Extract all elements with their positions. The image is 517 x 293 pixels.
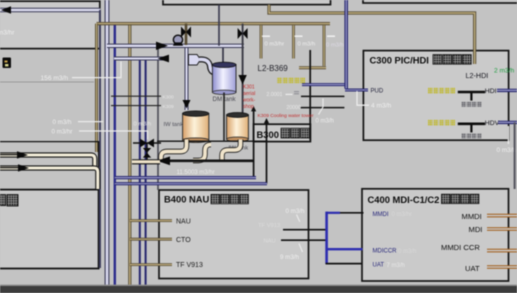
pipe blue MDICCR into C400 bbox=[327, 248, 363, 250]
label MDICCR left + value bbox=[373, 248, 417, 254]
label HDI + pipe bbox=[485, 88, 517, 95]
tank DM bbox=[212, 62, 236, 94]
svg-text:0 m3/h: 0 m3/h bbox=[298, 42, 316, 48]
wire UAT into C400 bbox=[326, 263, 363, 265]
label MMDI left + value bbox=[373, 212, 412, 218]
arrow left on stub y58.5 bbox=[158, 55, 170, 63]
label C300 title bbox=[370, 55, 472, 66]
tank IW1 bbox=[183, 111, 209, 143]
arrow down tank2 inlet bbox=[238, 75, 246, 85]
svg-text:MMDI CCR: MMDI CCR bbox=[441, 243, 480, 252]
pipe cream pump elbow 1 bbox=[161, 140, 187, 161]
tick white 3 bbox=[327, 35, 335, 37]
svg-text:9 m3/h: 9 m3/h bbox=[280, 254, 299, 261]
svg-text:0 m3/h: 0 m3/h bbox=[497, 147, 517, 154]
svg-text:B400 NAU: B400 NAU bbox=[164, 194, 210, 205]
pipe S-bend into DM tank bbox=[199, 59, 220, 73]
svg-text:TF V913: TF V913 bbox=[176, 262, 203, 269]
pipe outlet header y160.8 bbox=[157, 160, 253, 163]
label 0 m3/h mid bbox=[134, 122, 152, 128]
label UAT right + pipe bbox=[465, 264, 517, 273]
tick white 2 bbox=[295, 35, 303, 37]
svg-text:0 m3/h: 0 m3/h bbox=[134, 122, 152, 128]
label white 0 m3/h B400 bbox=[286, 208, 305, 222]
svg-text:C300 PIC/HDI: C300 PIC/HDI bbox=[370, 55, 429, 66]
pump P top bbox=[173, 35, 183, 46]
svg-text:B300: B300 bbox=[257, 129, 279, 140]
wire riser B to B300 bbox=[264, 118, 269, 184]
arrow right on cream supply 1 bbox=[0, 151, 28, 158]
svg-text:4 m3/h: 4 m3/h bbox=[371, 103, 391, 110]
box workshop top-left bbox=[0, 1, 100, 48]
box B300 office title bbox=[254, 124, 311, 141]
pipe navy PUD into C300 y90 bbox=[345, 89, 368, 92]
svg-text:PUD: PUD bbox=[371, 89, 384, 95]
label L2-HDI bbox=[466, 71, 489, 80]
box top-right bbox=[363, 0, 517, 3]
valve V3 horizontal bbox=[140, 139, 154, 148]
svg-text:MMDI: MMDI bbox=[373, 212, 389, 218]
pipe lavender pump run y45.8 bbox=[107, 44, 244, 48]
svg-text:MMDI: MMDI bbox=[462, 212, 482, 221]
label K300 bbox=[163, 95, 175, 101]
pipe cream valve station y161.8 bbox=[132, 159, 160, 164]
box garage bottom-left bbox=[0, 190, 99, 269]
svg-text:UAT: UAT bbox=[373, 262, 385, 268]
label red K301 aerial workshop bbox=[243, 85, 256, 111]
wire black drop x310.2 bbox=[309, 50, 311, 140]
label NAU bbox=[176, 218, 191, 225]
pipe navy vertical main x346.2 bbox=[344, 0, 348, 89]
comb tooth 2 bbox=[292, 25, 295, 58]
pipe vertical navy pair x139.8 x145.6 bbox=[140, 59, 146, 286]
wire DM tank top inlet x223 bbox=[222, 48, 224, 63]
svg-text:20000: 20000 bbox=[287, 105, 302, 111]
pipe navy header2 y183.7 bbox=[115, 182, 267, 185]
label 2.0001 bbox=[267, 92, 300, 98]
svg-text:2.0001: 2.0001 bbox=[267, 92, 283, 98]
svg-text:MDICCR: MDICCR bbox=[373, 248, 398, 254]
wire lavender feed pipe top-left bbox=[0, 8, 100, 13]
pipe vertical lavender main x107 bbox=[105, 0, 110, 285]
label yellow row near B369 bbox=[277, 78, 305, 84]
wire manifold top y141.2 bbox=[157, 140, 267, 142]
pipe tan upper run to C300 bbox=[269, 5, 475, 64]
svg-text:HDI: HDI bbox=[485, 88, 497, 95]
svg-text:0 m3/h: 0 m3/h bbox=[398, 249, 416, 255]
pipe lavender tank1 inlet x186.5 bbox=[185, 48, 189, 110]
svg-text:C400 MDI-C1/C2: C400 MDI-C1/C2 bbox=[368, 194, 440, 205]
svg-text:m3/hr: m3/hr bbox=[0, 30, 15, 37]
label m3/hr top-left bbox=[0, 30, 15, 37]
valve V1 on tan drop x186 bbox=[181, 24, 191, 45]
reducer funnel near DM tank bbox=[189, 55, 201, 66]
label MDI right + pipe bbox=[469, 225, 517, 234]
pipe tan stub CTO bbox=[130, 238, 172, 241]
label garage title blocks bbox=[0, 195, 18, 206]
wire black y141.6 with corner bbox=[0, 142, 99, 167]
symbol T consumer 2 bbox=[458, 124, 485, 139]
label 0 m3/h comb2 bbox=[298, 42, 316, 48]
pipe navy PUD left segment y84.6 bbox=[302, 83, 346, 86]
label 0 m3/hr left bbox=[52, 129, 148, 140]
wire faint y82 bbox=[0, 81, 94, 83]
label L2-B369 bbox=[258, 64, 289, 73]
svg-text:IW tank: IW tank bbox=[164, 122, 184, 128]
svg-text:K301: K301 bbox=[243, 85, 255, 91]
label UAT left + value bbox=[373, 262, 405, 268]
svg-text:0 m3/h: 0 m3/h bbox=[316, 119, 334, 125]
pipe vertical navy x114.8 bbox=[114, 24, 116, 286]
svg-text:shop: shop bbox=[243, 104, 254, 110]
label 0 m3/h right edge bbox=[497, 126, 517, 154]
svg-text:K309 Cooling water tower: K309 Cooling water tower bbox=[258, 113, 314, 119]
box C300 PIC/HDI area bbox=[363, 51, 508, 141]
pipe cream supply 2 y170.3 bbox=[0, 168, 98, 189]
svg-text:work-: work- bbox=[243, 98, 256, 104]
label white TF V913 + wire bbox=[258, 223, 327, 230]
box C400 MDI area bbox=[362, 189, 509, 281]
wire K line 2 bbox=[111, 105, 161, 107]
bottom dark band bbox=[0, 285, 517, 293]
label flow 11.5003 m3/hr bbox=[177, 170, 215, 176]
wire MMDI into C400 bbox=[327, 212, 364, 214]
label red K309 cooling water tower bbox=[258, 113, 314, 119]
arrow right on cream supply 2 bbox=[0, 164, 29, 171]
svg-text:11.5003 m3/hr: 11.5003 m3/hr bbox=[177, 170, 215, 176]
arrow left on top-left pipe bbox=[1, 6, 11, 14]
wire black y107.6 bbox=[301, 107, 345, 109]
L2-B369 comb tooth 1 bbox=[260, 25, 263, 58]
arrow down tank1 inlet bbox=[183, 100, 191, 109]
label B300 title bbox=[257, 128, 310, 140]
pipe tan stub NAU bbox=[130, 219, 172, 222]
pipe tan stub TFV913 bbox=[130, 263, 172, 266]
label 0 m3/h left bbox=[53, 119, 104, 126]
label yellow C300 row2 bbox=[428, 120, 455, 126]
svg-text:K300: K300 bbox=[163, 95, 175, 101]
pipe vertical dark riser x100 bbox=[99, 10, 101, 268]
svg-text:NAU: NAU bbox=[264, 238, 276, 244]
label C400 title bbox=[368, 194, 479, 205]
tank IW2 bbox=[227, 113, 249, 142]
label 2 m3/h green bbox=[494, 67, 514, 74]
pipe navy header1 y177.6 bbox=[115, 176, 256, 179]
svg-text:CTO: CTO bbox=[176, 237, 191, 244]
pipe vertical grey x158 bbox=[157, 46, 159, 190]
label IW tank 1 bbox=[164, 122, 184, 128]
label K309 bbox=[163, 104, 175, 110]
svg-text:L2-B369: L2-B369 bbox=[258, 64, 289, 73]
symbol T consumer 1 bbox=[458, 92, 485, 107]
valve station lines bbox=[133, 143, 161, 162]
svg-text:0 m3/h: 0 m3/h bbox=[53, 119, 72, 126]
pipe cream supply 1 y153.6 bbox=[0, 155, 95, 166]
svg-text:UAT: UAT bbox=[465, 264, 480, 273]
svg-text:aerial: aerial bbox=[243, 91, 255, 97]
arrow right on pump run bbox=[156, 42, 168, 50]
svg-text:0 m3/hr: 0 m3/hr bbox=[265, 42, 285, 48]
label white NAU + wire bbox=[264, 238, 327, 244]
svg-text:0 m3/hr: 0 m3/hr bbox=[392, 212, 412, 218]
pipe vertical tan header x129.8 bbox=[128, 24, 131, 286]
box B400 NAU area bbox=[159, 190, 309, 279]
wire DM outlet x224 bbox=[223, 93, 225, 142]
box top-middle bbox=[163, 0, 331, 5]
pipe cream pump elbow 3 bbox=[222, 140, 241, 161]
pump icon small top-left bbox=[3, 58, 12, 69]
wire dark drop x219 bbox=[218, 5, 220, 46]
svg-text:L2-HDI: L2-HDI bbox=[466, 71, 489, 80]
pipe tan rail horizontal y23.6 bbox=[97, 22, 331, 25]
label HDV + pipe bbox=[485, 120, 517, 127]
wire grey edge drop x514.6 bbox=[514, 122, 516, 189]
svg-text:156 m3/h: 156 m3/h bbox=[41, 75, 69, 82]
label MMDI CCR right + pipe bbox=[441, 243, 517, 252]
svg-text:0 m3/hr: 0 m3/hr bbox=[52, 129, 73, 136]
svg-text:TF V913: TF V913 bbox=[258, 223, 280, 229]
arrow left on outlet header bbox=[157, 156, 170, 165]
pipe tan corner drop x96.5 bbox=[95, 24, 98, 152]
label 4 m3/h bbox=[357, 91, 391, 110]
label MMDI right + pipe bbox=[462, 212, 517, 221]
label yellow C300 row1 bbox=[428, 88, 455, 94]
svg-text:HDV: HDV bbox=[485, 120, 500, 127]
svg-text:7 m3/h: 7 m3/h bbox=[387, 263, 405, 269]
pipe tan elbow y67.7 bbox=[299, 66, 326, 69]
wire riser A to B300 bbox=[251, 106, 256, 178]
pipe cream pump elbow 2 bbox=[193, 145, 211, 161]
label TF V913 bbox=[176, 262, 203, 269]
label IW tank 2 bbox=[229, 146, 249, 152]
label PUD bbox=[371, 89, 384, 95]
svg-text:NAU: NAU bbox=[176, 218, 191, 225]
svg-text:MDI: MDI bbox=[469, 225, 483, 234]
label 0 m3/hr comb1 bbox=[265, 42, 285, 48]
label 156 m3/h bbox=[41, 62, 122, 83]
label 0 m3/h leader B300 bbox=[316, 99, 334, 125]
svg-text:0 m3/h: 0 m3/h bbox=[326, 42, 344, 48]
valve V2 on drop x242.6 bbox=[238, 24, 248, 113]
label B400 title bbox=[164, 194, 248, 205]
svg-text:K309: K309 bbox=[163, 104, 175, 110]
label white 9 m3/h bbox=[280, 244, 303, 262]
pipe lavender stub y58.5 bbox=[114, 57, 168, 61]
label 0 m3/h comb3 bbox=[326, 42, 344, 48]
label CTO bbox=[176, 237, 191, 244]
valve V4 vertical bbox=[143, 148, 151, 158]
wire black y96.4 bbox=[301, 95, 344, 97]
label 20000 bbox=[287, 105, 302, 111]
tick white 1 bbox=[262, 35, 270, 37]
pipe blue junction vertical x326.6 bbox=[325, 212, 328, 264]
label DM tank bbox=[213, 96, 237, 103]
svg-text:2 m3/h: 2 m3/h bbox=[494, 67, 514, 74]
svg-text:0 m3/h: 0 m3/h bbox=[286, 208, 305, 215]
comb tooth 3 bbox=[323, 25, 326, 66]
wire K line 1 bbox=[111, 95, 161, 97]
